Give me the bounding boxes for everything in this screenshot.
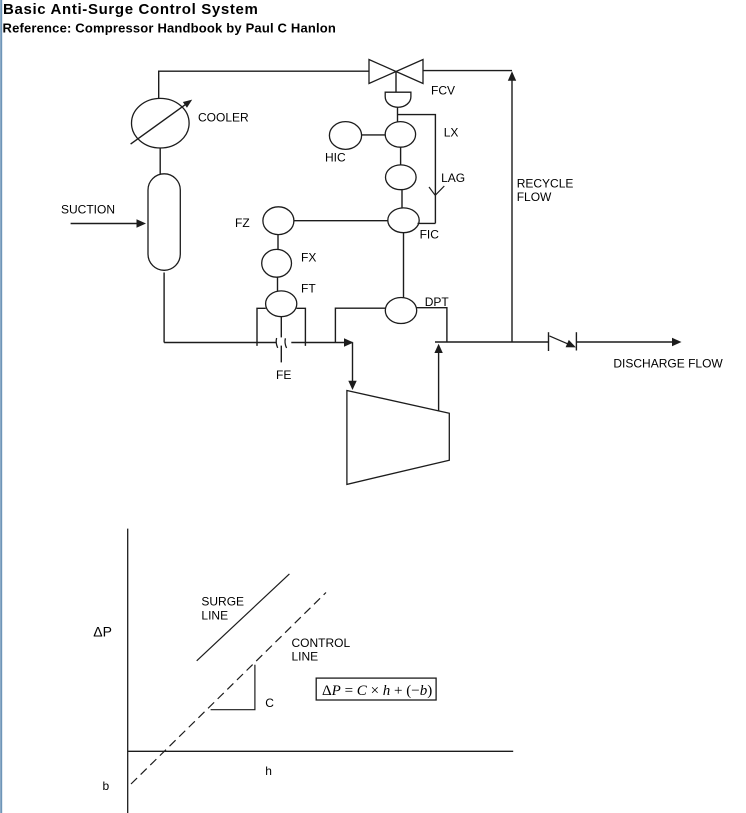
svg-text:FCV: FCV (431, 84, 455, 98)
svg-text:C: C (265, 696, 274, 710)
surge line (197, 574, 290, 661)
graph x axis (128, 750, 514, 752)
instrument LX (385, 122, 415, 148)
svg-text:ΔP = C × h + (−b): ΔP = C × h + (−b) (322, 683, 432, 699)
svg-text:HIC: HIC (325, 150, 346, 164)
arrow lag open (429, 186, 444, 195)
wire FT tap right (297, 308, 306, 346)
svg-text:CONTROL: CONTROL (292, 636, 351, 650)
svg-text:LINE: LINE (201, 609, 228, 623)
cooler (132, 98, 190, 148)
left page border (0, 0, 2, 813)
instrument DPT (385, 298, 416, 324)
wire FZ to FX (277, 235, 279, 250)
wire to compressor inlet (352, 343, 354, 382)
wire main pipe left (164, 342, 276, 344)
svg-text:RECYCLE: RECYCLE (517, 176, 574, 190)
wire valve stem (395, 72, 397, 93)
wire drum to pipe (163, 273, 165, 343)
svg-text:LAG: LAG (441, 171, 465, 185)
valve FCV (369, 60, 396, 84)
slope triangle (211, 665, 255, 710)
svg-text:SUCTION: SUCTION (61, 203, 115, 217)
svg-text:DISCHARGE FLOW: DISCHARGE FLOW (613, 357, 723, 371)
svg-text:ΔP: ΔP (93, 624, 112, 640)
svg-text:DPT: DPT (425, 295, 450, 309)
instrument LAG (386, 165, 417, 190)
wire DPT tap right (417, 308, 447, 342)
wire HIC to LX (362, 134, 386, 136)
wire LX to LAG (400, 147, 402, 165)
svg-text:COOLER: COOLER (198, 111, 249, 125)
equation box (316, 678, 436, 700)
wire cooler to drum (159, 148, 161, 174)
actuator dome (385, 92, 411, 107)
svg-text:LINE: LINE (292, 649, 319, 663)
graph y axis (127, 529, 129, 813)
instrument FT (266, 291, 297, 317)
instrument FZ (263, 207, 294, 235)
wire compressor discharge riser (438, 352, 440, 411)
control line dashed (131, 593, 326, 785)
svg-text:FZ: FZ (235, 216, 250, 230)
wire recycle riser (511, 74, 513, 342)
svg-text:Basic Anti-Surge Control Syste: Basic Anti-Surge Control System (3, 1, 258, 18)
wire main pipe right (291, 342, 352, 344)
suction drum (148, 174, 180, 270)
wire LAG to FIC (401, 190, 403, 208)
compressor (347, 391, 449, 485)
svg-text:FIC: FIC (420, 227, 440, 241)
wire stub FIC right (418, 222, 436, 224)
svg-text:FE: FE (276, 368, 291, 382)
wire FZ to FIC (294, 220, 388, 222)
svg-text:FLOW: FLOW (517, 190, 552, 204)
wire top header right (423, 70, 512, 72)
check valve (548, 332, 550, 351)
wire top header left (159, 71, 369, 98)
arrow suction (71, 223, 138, 225)
instrument FX (262, 249, 292, 277)
svg-text:FT: FT (301, 282, 316, 296)
wire FIC to DPT (403, 233, 405, 298)
wire DPT tap left (335, 308, 385, 342)
svg-text:h: h (265, 764, 272, 778)
svg-text:b: b (103, 779, 110, 793)
wire dome to LX (397, 107, 399, 122)
wire FT tap left (257, 308, 266, 346)
svg-text:LX: LX (444, 126, 459, 140)
svg-text:Reference: Compressor Handbook: Reference: Compressor Handbook by Paul C… (3, 21, 337, 36)
orifice FE (276, 338, 286, 348)
svg-text:SURGE: SURGE (201, 594, 244, 608)
wire branch to lag line (398, 115, 436, 224)
instrument FIC (388, 208, 419, 233)
wire discharge header (435, 341, 548, 343)
svg-text:FX: FX (301, 250, 316, 264)
instrument HIC (329, 122, 361, 150)
wire discharge out (576, 341, 673, 343)
wire FX to FT (277, 277, 279, 291)
